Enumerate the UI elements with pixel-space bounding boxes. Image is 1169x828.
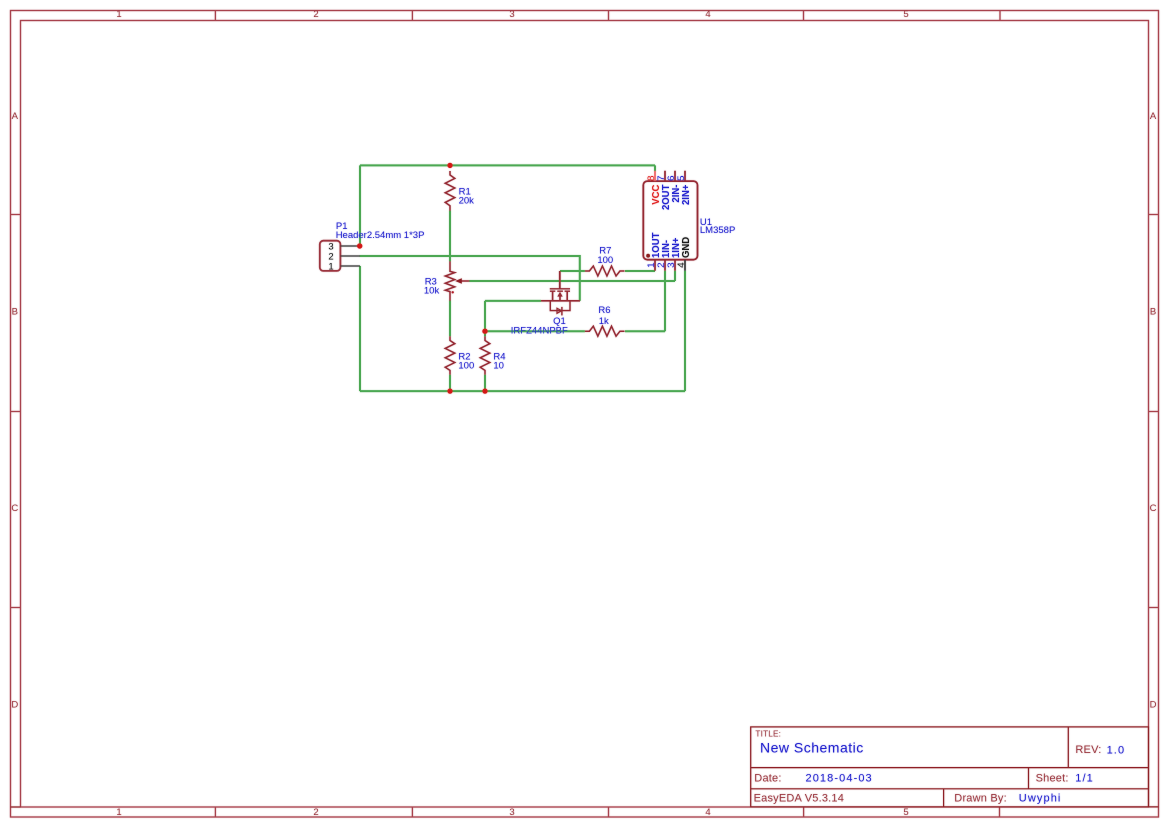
Q1 drain/source legs — [553, 291, 568, 301]
wire Q1 gate to R7 — [560, 270, 585, 272]
resistor R1 — [445, 171, 455, 211]
Q1 body diode cathode bar — [561, 307, 563, 316]
wire R2 bottom — [449, 375, 451, 391]
U1 body — [643, 181, 697, 260]
Q1 body diode loop — [550, 301, 570, 311]
Q1 gate bar — [550, 288, 570, 290]
wire left rail upper — [359, 165, 361, 248]
transistor Q1 — [541, 271, 580, 315]
wire Q1 source to node — [485, 300, 541, 302]
wire gnd riser to U1 pin4 — [684, 271, 686, 391]
U1 pin stubs 1,2,3 — [655, 260, 675, 271]
Q1 source rail — [541, 300, 580, 302]
wire R3 to R2 — [449, 301, 451, 337]
op-amp U1 — [643, 171, 697, 271]
U1 pin 4 stub (GND) — [684, 260, 686, 271]
node R1 top junction — [447, 163, 452, 168]
Q1 channel segments — [550, 290, 570, 292]
node R4 bottom junction — [482, 388, 487, 393]
wire R1 to R3 — [449, 211, 451, 262]
wire to U1 pin8 — [654, 165, 656, 171]
junction dots — [357, 163, 488, 394]
wire top rail — [360, 165, 685, 391]
resistor R6 — [585, 326, 625, 336]
wire P1 pin2 to Q1 drain — [360, 256, 580, 301]
title block — [11, 727, 1159, 807]
U1 pin stubs 7,6,5 — [665, 171, 685, 181]
component labels — [336, 186, 736, 371]
P1 pin numbers — [328, 241, 333, 272]
resistor R7 — [585, 266, 625, 276]
wire R6 to U1 pin2 — [625, 271, 665, 331]
wire R3 wiper to U1 pin3 — [469, 271, 675, 281]
node P1 pin3 junction — [357, 243, 362, 248]
wire R7 to U1 pin1 — [625, 270, 655, 272]
Q1 arrow — [557, 292, 562, 297]
wire R4 bottom — [484, 375, 486, 391]
wire bottom rail — [360, 390, 685, 392]
Q1 gate lead — [559, 271, 561, 289]
U1 pin numbers — [646, 175, 686, 267]
potentiometer R3 — [445, 261, 469, 300]
wire left rail lower from P1 pin1 — [359, 266, 361, 391]
U1 pin names — [651, 184, 693, 258]
connector P1 — [320, 241, 360, 273]
U1 pin 8 stub (highlighted) — [654, 171, 656, 181]
wire source node riser — [484, 301, 486, 336]
node R2 bottom junction — [447, 388, 452, 393]
Q1 body diode triangle — [557, 308, 562, 313]
wire node to R6 — [485, 330, 585, 332]
P1 body — [320, 241, 341, 271]
U1 pin 1 marker dot — [646, 254, 650, 258]
resistor R2 — [445, 336, 455, 375]
P1 pins 3,2,1 — [340, 246, 360, 266]
node source sense junction — [482, 329, 487, 334]
resistor R4 — [480, 336, 490, 375]
